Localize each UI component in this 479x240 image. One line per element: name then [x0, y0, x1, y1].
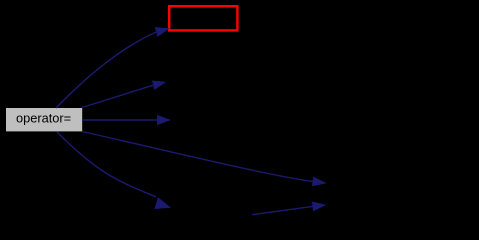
svg-text:operator=: operator= [16, 111, 71, 126]
